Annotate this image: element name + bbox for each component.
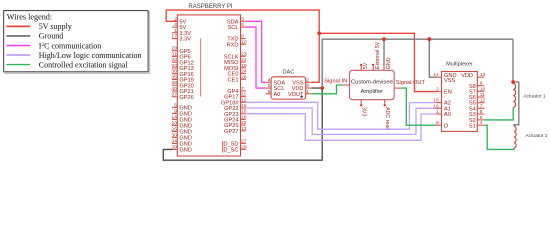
svg-text:ID_SC: ID_SC	[222, 148, 239, 154]
svg-text:Signal OUT: Signal OUT	[396, 80, 426, 86]
mux pin 12 S5	[477, 102, 484, 104]
amplifier pin 5V (top)	[360, 65, 362, 70]
RPi pin 21 MISO	[241, 61, 246, 63]
svg-text:3: 3	[306, 83, 309, 89]
amplifier pin External 5V (top)	[372, 65, 374, 70]
RPi pin 26 CE1	[241, 78, 246, 80]
multiplexer U4 body	[442, 72, 478, 132]
RPi pin 37 GP26	[172, 96, 177, 98]
DAC pin 1 VOUT	[306, 93, 312, 95]
RPi pin 32 GP12	[172, 61, 177, 63]
mux pin 10 S7	[477, 90, 484, 92]
legend swatch: Excitation line	[6, 64, 30, 66]
svg-text:High/Low logic communication: High/Low logic communication	[39, 51, 142, 60]
wire logic: GP18# to mux A2	[246, 102, 436, 129]
RPi pin 11 GP17	[241, 96, 246, 98]
wire I2C SDA	[246, 21, 266, 82]
svg-text:3: 3	[241, 16, 244, 22]
svg-text:3V3: 3V3	[360, 107, 366, 116]
RPi pin 40 GP21	[172, 90, 177, 92]
RPi pin 20 GND	[172, 124, 177, 126]
junction GND bus amp	[382, 37, 386, 41]
mux pin 1 A0	[436, 113, 442, 115]
DAC pin 6 A0	[266, 93, 272, 95]
junction GND bus mux	[427, 37, 431, 41]
RPi ID separator tick	[222, 141, 224, 152]
wire GND: drop to mux GND pin14	[429, 39, 436, 77]
mux pin 11 S6	[477, 96, 484, 98]
DAC pin 4 SDA	[266, 81, 272, 83]
svg-text:7: 7	[241, 86, 244, 92]
svg-text:1: 1	[436, 109, 439, 115]
DAC pin 2 VSS	[306, 81, 312, 83]
legend box	[5, 12, 149, 73]
wire excitation: amp Signal OUT to mux D	[402, 88, 437, 125]
RPi internal divider line	[200, 38, 202, 96]
svg-text:Ground: Ground	[39, 32, 63, 41]
RPi pin 35 GP19	[172, 78, 177, 80]
svg-text:8: 8	[241, 34, 244, 40]
RPi pin 14 GND	[172, 118, 177, 120]
DAC pin 5 SCL	[266, 87, 272, 89]
wire GND: drop to amplifier GND	[383, 39, 385, 65]
wire GND: DAC VDD stub to junction	[311, 87, 322, 89]
svg-text:6: 6	[268, 89, 271, 95]
svg-text:17: 17	[171, 34, 177, 40]
svg-text:32: 32	[171, 57, 177, 63]
svg-text:2: 2	[306, 77, 309, 83]
RPi pin 30 GND	[172, 136, 177, 138]
wire 5V: down to DAC VSS	[311, 33, 319, 82]
svg-text:27: 27	[241, 138, 247, 144]
svg-text:40: 40	[171, 86, 177, 92]
junction GND at DAC VDD	[320, 86, 324, 90]
svg-text:4: 4	[268, 77, 271, 83]
svg-text:RXD: RXD	[227, 42, 239, 48]
svg-text:21: 21	[241, 57, 247, 63]
DAC pin 3 VDD	[306, 87, 312, 89]
svg-text:4: 4	[480, 120, 483, 126]
amplifier pin GND (top)	[383, 65, 385, 70]
RPi pin 6 GND	[172, 106, 177, 108]
svg-text:Actuator 2: Actuator 2	[525, 133, 548, 139]
svg-text:9: 9	[174, 108, 177, 114]
svg-text:5V: 5V	[363, 62, 369, 69]
svg-text:Signal IN: Signal IN	[324, 79, 347, 85]
legend swatch: I2C line	[6, 45, 30, 47]
svg-text:Multiplexer: Multiplexer	[446, 61, 473, 67]
amplifier pin ADC read (bottom)	[384, 100, 386, 105]
svg-text:11: 11	[480, 92, 485, 98]
svg-text:28: 28	[241, 144, 247, 150]
svg-text:VDD: VDD	[461, 73, 473, 79]
mux pin 14 GND	[436, 76, 442, 78]
wire 5V: across to mux EN	[319, 33, 436, 91]
svg-text:13: 13	[241, 126, 247, 132]
svg-text:ADC read: ADC read	[384, 107, 390, 130]
RPi pin 38 GP20	[172, 84, 177, 86]
svg-text:7: 7	[480, 103, 483, 109]
svg-text:Actuator 1: Actuator 1	[523, 94, 546, 100]
RPi pin 39 GND	[172, 148, 177, 150]
svg-text:6: 6	[480, 109, 483, 115]
wire excitation: mux S2 to actuator 1 bottom	[484, 108, 513, 120]
svg-text:GND: GND	[179, 148, 192, 154]
actuator 1 L1 coil	[513, 84, 515, 108]
svg-text:22: 22	[241, 120, 247, 126]
junction actuator 1 top	[511, 80, 515, 84]
svg-text:3.3V: 3.3V	[179, 37, 191, 43]
svg-text:EN: EN	[444, 90, 452, 96]
wire I2C SCL	[246, 27, 266, 88]
svg-text:5V supply: 5V supply	[39, 22, 72, 31]
svg-text:24: 24	[241, 69, 247, 75]
svg-text:6: 6	[174, 102, 177, 108]
svg-text:Amplifier: Amplifier	[361, 89, 384, 95]
wire 5V: RPi pin2 up and across top	[166, 10, 319, 33]
mux pin 4 S1	[477, 124, 484, 126]
svg-text:9: 9	[480, 81, 483, 87]
svg-text:S1: S1	[469, 123, 476, 129]
junction 5V top	[317, 31, 321, 35]
svg-text:1: 1	[306, 89, 309, 95]
RPi pin 8 TXD	[241, 38, 246, 40]
DAC polarity dot	[301, 96, 303, 98]
mux pin 7 S4	[477, 107, 484, 109]
wire logic: GP23 to mux A0	[246, 114, 436, 141]
wire GND return: bottom to RPi pin39	[163, 88, 322, 160]
svg-text:5: 5	[480, 115, 483, 121]
svg-text:35: 35	[171, 74, 177, 80]
svg-text:Custom-devised: Custom-devised	[351, 79, 393, 85]
Raspberry Pi U1 body	[177, 15, 240, 156]
svg-text:Wires legend:: Wires legend:	[7, 13, 52, 22]
RPi pin 12 GP18#	[241, 101, 246, 103]
mux pin 2 EN	[436, 91, 442, 93]
svg-text:Controlled excitation signal: Controlled excitation signal	[39, 60, 129, 69]
svg-text:10: 10	[241, 39, 247, 45]
RPi pin 16 GP23	[241, 113, 246, 115]
svg-text:A0: A0	[274, 92, 281, 98]
svg-text:A0: A0	[444, 112, 451, 118]
RPi pin 24 CE0	[241, 73, 246, 75]
RPi pin 7 GP4	[241, 90, 246, 92]
DAC U2 body	[271, 77, 306, 99]
svg-text:31: 31	[171, 51, 177, 57]
wire logic: GP22 to mux A1	[246, 108, 436, 134]
mux pin 13 VDD	[477, 76, 484, 78]
wire GND bus: up and across top	[322, 39, 513, 88]
RPi pin 28 ID_SC	[241, 148, 246, 150]
wire GND: branch to actuator 2 top	[513, 82, 519, 126]
svg-text:1: 1	[174, 28, 177, 34]
RPi pin 17 3.3V	[172, 38, 177, 40]
RPi pin 18 GP24	[241, 118, 246, 120]
RPi pin 5 SCL	[241, 26, 246, 28]
wire excitation: DAC VOUT to amp Signal IN	[311, 85, 343, 94]
RPi pin 33 GP13	[172, 67, 177, 69]
RPi pin 23 SCLK	[241, 55, 246, 57]
svg-text:I2C communication: I2C communication	[39, 41, 101, 50]
svg-text:30: 30	[171, 132, 177, 138]
svg-text:2: 2	[436, 87, 439, 93]
svg-text:8: 8	[436, 120, 439, 126]
svg-text:13: 13	[480, 72, 486, 78]
svg-text:37: 37	[171, 92, 177, 98]
RPi pin 27 ID_SD	[241, 142, 246, 144]
legend swatch: High/Low line	[6, 54, 30, 56]
svg-text:SCL: SCL	[228, 25, 239, 31]
RPi pin 10 RXD	[241, 43, 246, 45]
svg-text:5: 5	[241, 22, 244, 28]
svg-text:36: 36	[171, 69, 177, 75]
svg-text:12: 12	[480, 98, 486, 104]
svg-text:DAC: DAC	[282, 70, 294, 76]
legend swatch: 5V supply line	[6, 25, 30, 27]
amplifier pin Signal OUT (right)	[394, 87, 401, 89]
mux pin 6 S3	[477, 113, 484, 115]
svg-text:38: 38	[171, 80, 177, 86]
svg-text:GP26: GP26	[179, 95, 193, 101]
wire excitation: mux S1 to actuator 2 bottom	[484, 125, 514, 149]
svg-text:25: 25	[171, 126, 177, 132]
svg-text:26: 26	[241, 74, 247, 80]
wire GND: down to actuator 1 top	[512, 39, 514, 82]
svg-text:23: 23	[241, 51, 247, 57]
RPi pin 31 GP6	[172, 55, 177, 57]
RPi pin 3 SDA	[241, 20, 246, 22]
svg-text:CE1: CE1	[228, 77, 239, 83]
mux pin 5 S2	[477, 119, 484, 121]
svg-text:11: 11	[241, 92, 246, 98]
RPi pin 29 GP5	[172, 50, 177, 52]
mux pin 16 A1	[436, 107, 442, 109]
RPi pin 1 3.3V	[172, 32, 177, 34]
RPi pin 34 GND	[172, 142, 177, 144]
svg-text:14: 14	[171, 114, 177, 120]
amplifier U3 body	[350, 70, 395, 99]
svg-text:18: 18	[241, 114, 247, 120]
svg-text:34: 34	[171, 138, 177, 144]
RPi pin 13 GP27	[241, 130, 246, 132]
svg-text:RASPBERRY PI: RASPBERRY PI	[188, 4, 232, 10]
legend swatch: Ground line	[6, 35, 30, 37]
mux pin 9 S8	[477, 85, 484, 87]
svg-text:External 5V: External 5V	[375, 41, 381, 69]
amplifier pin 3V3 (bottom)	[360, 100, 362, 105]
svg-text:GND: GND	[386, 57, 392, 69]
svg-text:20: 20	[171, 120, 177, 126]
svg-text:5: 5	[268, 83, 271, 89]
RPi pin 25 GND	[172, 130, 177, 132]
svg-text:10: 10	[480, 86, 486, 92]
amplifier pin Signal IN (left)	[343, 84, 350, 86]
RPi pin 15 GP22	[241, 107, 246, 109]
svg-text:D: D	[444, 123, 448, 129]
RPi pin 2 5V	[172, 20, 177, 22]
mux pin 8 D	[436, 124, 442, 126]
RPi pin 19 MOSI	[241, 67, 246, 69]
svg-text:19: 19	[241, 63, 247, 69]
RPi pin 36 GP16	[172, 73, 177, 75]
svg-text:4: 4	[174, 22, 177, 28]
RPi pin 22 GP25	[241, 124, 246, 126]
svg-text:VSS: VSS	[444, 78, 456, 84]
svg-text:GP27: GP27	[224, 129, 238, 135]
RPi pin 4 5V	[172, 26, 177, 28]
svg-text:29: 29	[171, 46, 177, 52]
svg-text:33: 33	[171, 63, 177, 69]
RPi pin 9 GND	[172, 112, 177, 114]
mux pin 15 A2	[436, 102, 442, 104]
svg-text:39: 39	[171, 144, 177, 150]
actuator 2 L2 coil	[514, 126, 516, 148]
